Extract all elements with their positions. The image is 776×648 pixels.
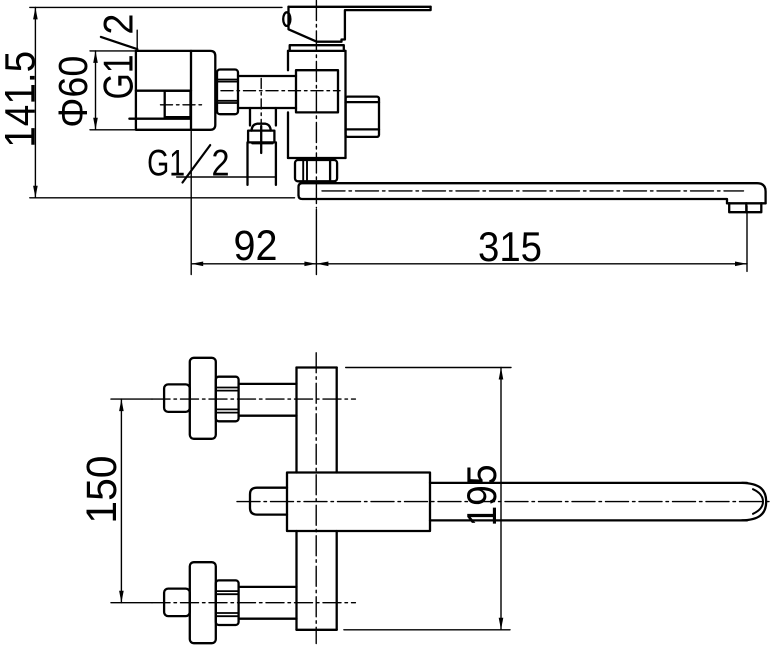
inlet boss square bbox=[296, 70, 338, 112]
aerator top line bbox=[727, 202, 766, 204]
check valve band bbox=[248, 131, 274, 143]
socket centerline bbox=[161, 104, 205, 106]
svg-text:315: 315 bbox=[478, 223, 542, 270]
svg-text:2: 2 bbox=[94, 14, 141, 35]
main body bottom edge bbox=[288, 157, 346, 159]
top inlet centerline bbox=[111, 398, 152, 400]
dim line 92 and 315 bbox=[192, 263, 748, 265]
svg-text:141.5: 141.5 bbox=[0, 51, 45, 148]
arrow 150 bottom bbox=[119, 591, 124, 603]
dim 92 extension left bbox=[190, 132, 192, 275]
arrow 92 right bbox=[304, 262, 316, 267]
main body top edge bbox=[288, 50, 346, 52]
svg-text:Φ60: Φ60 bbox=[50, 56, 96, 128]
spout plan centerline bbox=[237, 501, 772, 503]
dim 195 line bbox=[500, 368, 502, 630]
hex nut bbox=[217, 70, 238, 115]
dim 315 extension right (aerator centerline) bbox=[746, 206, 748, 271]
cartridge cap band bbox=[290, 45, 344, 51]
check valve centerline bbox=[260, 79, 262, 125]
arrow 315 left bbox=[316, 262, 328, 267]
bottom inlet pipe bbox=[239, 586, 297, 588]
handle pivot ellipse bbox=[283, 12, 290, 26]
body column right edge bbox=[336, 368, 338, 473]
spout retaining nut bbox=[295, 160, 337, 181]
arrow 141.5 bottom bbox=[33, 186, 38, 198]
body column left edge bbox=[295, 368, 297, 473]
arrow Phi60 bottom bbox=[93, 118, 98, 130]
arrow 150 top bbox=[119, 399, 124, 411]
top inlet pipe bbox=[239, 383, 297, 385]
label G1/2 top leader bbox=[136, 30, 138, 51]
dimension 141.5 line bbox=[34, 7, 36, 197]
check valve cross vertical bbox=[260, 126, 262, 153]
top inlet escutcheon bbox=[190, 358, 216, 439]
bottom inlet stub bbox=[164, 589, 190, 617]
dimension Phi60 line bbox=[95, 51, 97, 130]
dim 150 line bbox=[120, 399, 122, 603]
svg-text:195: 195 bbox=[458, 465, 505, 527]
spout plan top edge bbox=[430, 482, 747, 484]
top inlet nut bbox=[216, 377, 239, 422]
svg-text:92: 92 bbox=[234, 222, 278, 270]
bottom inlet escutcheon bbox=[190, 562, 216, 643]
body column top edge bbox=[297, 366, 337, 368]
label G1/2 bottom underline leader bbox=[177, 176, 275, 178]
check valve neck right bbox=[275, 108, 277, 126]
handle lever top edge bbox=[289, 6, 431, 8]
escutcheon step line bbox=[136, 90, 191, 92]
escutcheon divider bbox=[190, 51, 192, 130]
escutcheon stub bottom line bbox=[129, 118, 190, 120]
arrow 195 top bbox=[499, 368, 504, 380]
escutcheon socket rect bbox=[165, 91, 191, 118]
central block bbox=[287, 473, 430, 532]
spout plan round end inner arc bbox=[753, 489, 763, 514]
body column centerline bbox=[315, 353, 317, 644]
inlet pipe top edge bbox=[238, 75, 296, 77]
dimension Phi60 extension bottom bbox=[90, 129, 136, 131]
check valve body right bbox=[275, 142, 277, 185]
spout bottom edge bbox=[299, 195, 728, 203]
pipe centerline bbox=[221, 90, 340, 92]
spout centerline bbox=[322, 190, 744, 192]
inlet pipe bottom edge bbox=[238, 107, 296, 109]
escutcheon box bbox=[136, 51, 215, 130]
svg-text:150: 150 bbox=[78, 456, 126, 524]
svg-text:G1: G1 bbox=[94, 55, 141, 100]
dimension Phi60 extension top bbox=[90, 50, 136, 52]
outlet block right bbox=[346, 97, 379, 137]
arrow 141.5 top bbox=[33, 7, 38, 19]
hex nut facet lines bbox=[217, 79, 238, 81]
bottom inlet nut bbox=[216, 580, 239, 625]
main body left edge upper bbox=[287, 51, 289, 70]
cartridge stub left bbox=[250, 488, 287, 515]
arrow Phi60 top bbox=[93, 51, 98, 63]
label G1/2 top slash bbox=[101, 37, 137, 49]
main body left edge lower bbox=[287, 112, 289, 158]
check valve body left bbox=[246, 142, 248, 185]
body vertical centerline bbox=[315, 1, 317, 209]
spout side view outline bbox=[299, 183, 766, 203]
arrow 315 right bbox=[735, 262, 747, 267]
dim 195 extension top bbox=[346, 367, 511, 369]
check valve neck left bbox=[249, 108, 251, 126]
check valve cross horizontal bbox=[252, 142, 272, 144]
arrow 195 bottom bbox=[499, 618, 504, 630]
dimension 141.5 extension bottom bbox=[30, 197, 295, 199]
main body right edge bbox=[344, 51, 346, 158]
aerator block bbox=[729, 203, 761, 212]
arrow 92 left bbox=[191, 262, 203, 267]
spout plan round end outer arc bbox=[742, 483, 766, 521]
top inlet stub bbox=[164, 384, 190, 412]
dimension 141.5 extension top bbox=[30, 6, 282, 8]
check valve dome bbox=[252, 124, 271, 131]
dim 92 extension middle bbox=[315, 210, 317, 275]
bottom inlet centerline bbox=[111, 602, 152, 604]
body column bottom edge bbox=[297, 629, 337, 631]
aerator divider bbox=[745, 203, 747, 212]
spout plan bottom edge bbox=[430, 519, 747, 521]
handle lever underside bbox=[289, 7, 431, 42]
dim 195 extension bottom bbox=[344, 629, 510, 631]
label G1/2 bottom slash bbox=[183, 145, 211, 182]
